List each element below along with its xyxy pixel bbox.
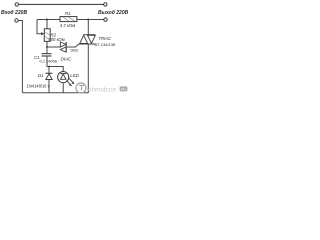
terminal output bottom xyxy=(104,18,107,21)
svg-text:DIAC: DIAC xyxy=(61,57,73,62)
wire wiper feed xyxy=(37,20,42,34)
wire diac to gate xyxy=(66,44,79,47)
svg-text:D1: D1 xyxy=(38,73,44,78)
LED arrow 2 xyxy=(69,79,73,83)
svg-text:DB3: DB3 xyxy=(71,48,78,52)
watermark badge xyxy=(120,86,128,91)
wire bottom rail xyxy=(22,92,88,94)
node dot pot top xyxy=(46,19,48,21)
svg-text:0,1 х400в: 0,1 х400в xyxy=(40,59,57,64)
potentiometer R2 xyxy=(44,29,50,42)
svg-text:1N4148/16 v: 1N4148/16 v xyxy=(27,84,51,89)
svg-text:BT-134/138: BT-134/138 xyxy=(95,42,116,47)
svg-text:4,7 кОм: 4,7 кОм xyxy=(60,23,75,28)
svg-text:R1: R1 xyxy=(65,11,71,16)
svg-text:500 кОм: 500 кОм xyxy=(49,37,65,42)
wiper arrow xyxy=(41,32,44,35)
triac top lead xyxy=(87,20,89,35)
wire triac node to output bottom xyxy=(88,19,104,21)
node dot D1 top xyxy=(48,66,50,68)
diac DB3 xyxy=(65,42,67,53)
svg-text:RU: RU xyxy=(121,87,126,91)
terminal output top xyxy=(104,3,107,6)
LED xyxy=(58,72,69,83)
wire R1 to triac node xyxy=(77,19,88,21)
svg-text:Вход 220В: Вход 220В xyxy=(1,10,27,16)
triac BT-134/138 xyxy=(83,34,95,36)
resistor R1 xyxy=(60,17,77,22)
wire input bottom to left rail xyxy=(18,21,22,93)
node dot pot bottom xyxy=(46,46,48,48)
watermark logo circle xyxy=(76,83,86,93)
wire top rail xyxy=(19,3,104,5)
terminal input bottom xyxy=(15,19,18,22)
svg-text:Выход 220В: Выход 220В xyxy=(98,10,129,16)
wire C1 to indicator branch xyxy=(47,56,63,71)
wire gate net horizontal xyxy=(47,46,60,48)
triac bottom lead xyxy=(87,44,89,93)
LED arrow 1 xyxy=(67,81,71,85)
capacitor C1 xyxy=(46,47,48,53)
svg-text:ohmobzor: ohmobzor xyxy=(88,87,117,93)
wire node A horizontal xyxy=(37,19,60,21)
svg-text:LED: LED xyxy=(70,73,79,78)
terminal input top xyxy=(15,3,18,6)
svg-text:TRIAC: TRIAC xyxy=(99,36,113,41)
wire pot bottom lead xyxy=(46,41,48,47)
wire pot top lead xyxy=(46,20,48,29)
diode D1 xyxy=(48,67,50,74)
node dot triac top xyxy=(87,19,89,21)
